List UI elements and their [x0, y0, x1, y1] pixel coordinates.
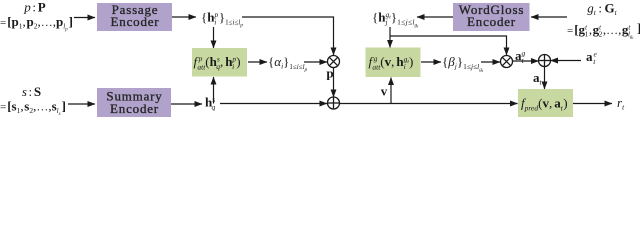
wire h^g branch right then down into multiply node g [390, 36, 507, 55]
svg-text:s:S: s:S [22, 84, 41, 99]
wire plus node r down into f_pred [544, 67, 546, 90]
svg-text:hsq: hsq [205, 95, 216, 112]
node multiply p [328, 56, 340, 68]
node multiply g [501, 56, 513, 68]
svg-text:Encoder: Encoder [467, 14, 516, 29]
svg-text:gt:Gt: gt:Gt [587, 1, 617, 18]
f_att^g box [366, 48, 421, 78]
svg-text:Encoder: Encoder [111, 14, 160, 29]
wire arrow p-input to Passage Encoder [74, 17, 95, 19]
wire arrow h_q^s up into f_att^p [213, 77, 215, 104]
Passage Encoder box [97, 3, 172, 31]
wire arrow h^p down into f_att^p [213, 27, 215, 48]
wire arrow Summary Encoder to h_q^s [171, 103, 202, 105]
svg-text:p: p [326, 66, 333, 81]
wire arrow f_pred to r_t [573, 103, 612, 105]
wire h_q^s to plus node [220, 103, 327, 105]
svg-text:=[s1,s2,…,sls]: =[s1,s2,…,sls] [0, 99, 66, 118]
wire h^p right then down into multiply node [242, 17, 334, 55]
wire arrow Passage Encoder to h^p [172, 16, 196, 18]
WordGloss Encoder box [453, 3, 530, 31]
f_att^p box [192, 48, 247, 77]
wire arrow f_att^p to alpha [248, 61, 267, 63]
svg-text:Encoder: Encoder [110, 101, 159, 116]
svg-text:aet: aet [586, 49, 598, 66]
node plus left [328, 97, 340, 109]
wire arrow s-input to Summary Encoder [68, 103, 95, 105]
wire multiply node g to plus node r [513, 60, 539, 62]
f_pred box [518, 89, 573, 117]
wire arrow v up into f_att^g [390, 78, 392, 104]
svg-text:=[p1,p2,…,plp]: =[p1,p2,…,plp] [0, 14, 73, 33]
svg-text:agt: agt [515, 48, 526, 65]
svg-text:at: at [533, 70, 543, 87]
wire plus node to f_pred [340, 103, 518, 105]
svg-text:{hpi}1≤i≤lp: {hpi}1≤i≤lp [201, 10, 243, 29]
svg-text:rt: rt [617, 95, 625, 112]
Summary Encoder box [97, 88, 171, 117]
wire a_t^e to plus node r [551, 60, 582, 62]
svg-text:{hgtj}1≤j≤lgt: {hgtj}1≤j≤lgt [372, 10, 419, 29]
wire arrow WordGloss Encoder to h^g [417, 16, 453, 18]
svg-text:{αi}1≤i≤lp: {αi}1≤i≤lp [268, 54, 308, 73]
svg-text:fpatt(hsq,hpi): fpatt(hsq,hpi) [194, 54, 241, 72]
node plus right [539, 55, 551, 67]
wire multiply node down into plus node [333, 68, 335, 98]
wire arrow alpha to multiply node [304, 61, 327, 63]
svg-text:=[gt1,gt2,…,gtlgt]: =[gt1,gt2,…,gtlgt] [567, 21, 640, 41]
svg-text:p:P: p:P [23, 0, 46, 15]
svg-text:{βj}1≤j≤lgt: {βj}1≤j≤lgt [442, 54, 484, 73]
wire arrow beta to multiply node g [481, 61, 500, 63]
svg-text:v: v [381, 84, 388, 99]
wire arrow f_att^g to beta [421, 61, 441, 63]
wire arrow h^g down into f_att^g [389, 27, 391, 48]
wire arrow g-input to WordGloss Encoder [531, 16, 567, 18]
